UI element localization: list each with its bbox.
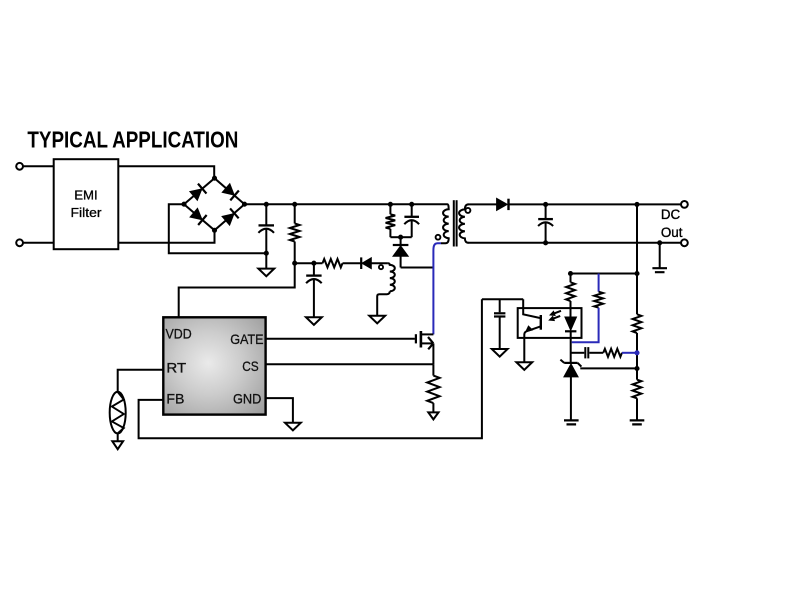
wire divider vertical upper — [636, 204, 638, 314]
optocoupler phototransistor — [523, 299, 540, 318]
FB capacitor C6 — [499, 299, 501, 312]
junction TL431 reference — [634, 366, 639, 371]
junction R3 top on rail — [388, 202, 393, 207]
ground below C1 — [265, 253, 267, 268]
junction C3 top on rail — [409, 202, 414, 207]
wire FB node horizontal — [482, 298, 523, 300]
divider earth ground — [630, 420, 645, 424]
wire input top to EMI filter — [23, 165, 54, 167]
wire main DC+ rail — [245, 203, 448, 205]
wire GND pin to ground — [266, 398, 293, 423]
junction feedback left — [568, 271, 573, 276]
comp capacitor C5 — [584, 347, 586, 358]
svg-text:Filter: Filter — [71, 205, 103, 220]
wire D2 to auxiliary winding — [371, 262, 387, 264]
svg-text:RT: RT — [166, 361, 186, 376]
ground below C2 — [306, 317, 322, 325]
junction VDD capacitor top — [311, 261, 316, 266]
ground below phototransistor emitter — [516, 362, 532, 370]
ground below RT resistor — [112, 441, 123, 449]
svg-text:GND: GND — [233, 392, 261, 407]
MOSFET Q1 channel bar — [420, 331, 423, 348]
optocoupler light arrow 2 — [550, 316, 560, 320]
wire VDD node right — [295, 262, 323, 264]
wire (blue) feedback tap lower — [572, 308, 599, 343]
wire clamp diode to drain node — [401, 267, 434, 269]
startup resistor R1 — [294, 204, 296, 223]
transformer T1 core — [453, 200, 455, 246]
DC Out terminal top — [681, 201, 688, 208]
bridge diode D1d (bottom to right) — [222, 208, 239, 225]
wire (blue) feedback tap upper — [598, 274, 600, 292]
bridge rectifier BR1 diamond — [184, 178, 245, 230]
wire (blue) comp to divider — [622, 352, 637, 354]
divider resistor R5 (upper) — [633, 314, 642, 333]
junction output rail / divider — [634, 202, 639, 207]
svg-text:VDD: VDD — [166, 327, 192, 342]
wire (blue) primary to MOSFET drain — [433, 243, 441, 334]
MOSFET Q1 drain connection — [421, 333, 434, 335]
optocoupler U2 body — [518, 308, 582, 338]
junction bridge bottom — [212, 228, 217, 233]
snubber resistor R3 — [389, 204, 391, 214]
wire EMI filter bottom output to bridge — [118, 230, 214, 243]
divider resistor R6 (lower) — [633, 380, 642, 399]
junction output ground stub — [657, 240, 662, 245]
MOSFET Q1 gate bar — [415, 334, 417, 343]
bulk capacitor C1 — [265, 204, 267, 225]
transformer T1 primary winding — [441, 204, 449, 243]
wire divider to ground — [636, 398, 638, 420]
clamp diode D1 (pointing up) — [400, 237, 402, 245]
resistor R7 (feedback) — [594, 292, 603, 308]
wire auxiliary winding to ground — [377, 291, 390, 316]
controller IC U1 — [163, 317, 265, 414]
resistor R2 (VDD series) — [323, 259, 343, 267]
wire GATE pin to MOSFET gate — [266, 338, 415, 340]
wire bridge negative loop — [169, 204, 266, 253]
junction C1 top on rail — [264, 202, 269, 207]
auxiliary winding polarity dot — [379, 265, 383, 269]
junction bridge left — [181, 202, 186, 207]
DC Out terminal bottom — [681, 239, 688, 246]
timing resistor RT (elliptical) — [110, 392, 126, 434]
optocoupler light arrow 1 — [551, 311, 561, 315]
input terminal bottom (AC neutral) — [16, 239, 23, 246]
EMI filter block — [54, 159, 119, 249]
junction comp network (blue) — [634, 350, 639, 355]
svg-text:FB: FB — [166, 392, 184, 407]
junction snubber bottom node — [398, 235, 403, 240]
output earth ground — [652, 268, 667, 272]
svg-text:GATE: GATE — [230, 332, 263, 347]
wire comp cap to resistor — [589, 352, 603, 354]
junction C4 top — [543, 202, 548, 207]
MOSFET Q1 source connection — [421, 342, 434, 344]
wire CS pin to source node — [266, 363, 434, 365]
diode D2 (VDD rectifier, pointing left) — [362, 258, 371, 269]
output capacitor C4 — [545, 204, 547, 219]
TL431 earth ground — [564, 420, 579, 424]
junction C4 bottom — [543, 240, 548, 245]
input terminal top (AC line) — [16, 163, 23, 170]
ground below GND pin — [285, 423, 301, 431]
wire feedback top — [571, 273, 638, 275]
VDD capacitor C2 — [313, 263, 315, 275]
transformer secondary polarity dot — [465, 208, 470, 213]
snubber capacitor C3 — [411, 204, 413, 217]
junction VDD node — [292, 261, 297, 266]
junction bridge right — [242, 202, 247, 207]
auxiliary winding — [388, 263, 395, 291]
current sense resistor R9 — [432, 364, 434, 375]
svg-text:CS: CS — [242, 359, 259, 374]
wire R2 to D2 — [343, 262, 363, 264]
wire output rail bottom — [468, 242, 682, 244]
wire VDD node to IC VDD pin — [179, 263, 295, 317]
junction feedback right — [634, 271, 639, 276]
ground below R9 — [428, 412, 438, 419]
junction C1 bottom — [264, 251, 269, 256]
bridge diode D1c (left to bottom) — [190, 208, 207, 225]
svg-text:DC: DC — [661, 207, 681, 222]
ground below FB capacitor — [492, 349, 508, 357]
bridge diode D1a (left to top) — [189, 184, 206, 201]
wire RT pin to resistor — [118, 370, 164, 392]
comp resistor R8 — [603, 349, 622, 357]
optocoupler LED (pointing down) — [565, 317, 577, 330]
junction R1 top on rail — [292, 202, 297, 207]
junction bridge top — [212, 176, 217, 181]
wire comp from cathode node — [571, 352, 585, 354]
wire input bottom to EMI filter — [23, 242, 54, 244]
svg-text:Out: Out — [661, 225, 683, 240]
transformer primary polarity dot — [436, 235, 441, 240]
transformer T1 secondary winding — [459, 204, 468, 242]
ground below auxiliary winding — [369, 316, 385, 324]
wire secondary top to output diode — [468, 203, 498, 205]
output ground stub — [659, 243, 661, 268]
wire FB loop to IC — [139, 299, 482, 438]
bridge diode D1b (top to right) — [222, 183, 239, 200]
wire EMI filter top output to bridge — [118, 166, 214, 178]
svg-text:TYPICAL APPLICATION: TYPICAL APPLICATION — [27, 127, 238, 153]
wire output rail top — [509, 203, 682, 205]
TL431 reference wire — [580, 367, 637, 369]
TL431 U3 shunt regulator — [564, 362, 577, 364]
svg-text:EMI: EMI — [74, 187, 97, 202]
wire divider middle — [636, 333, 638, 380]
output diode D3 — [497, 198, 508, 210]
LED resistor R4 — [570, 274, 572, 283]
